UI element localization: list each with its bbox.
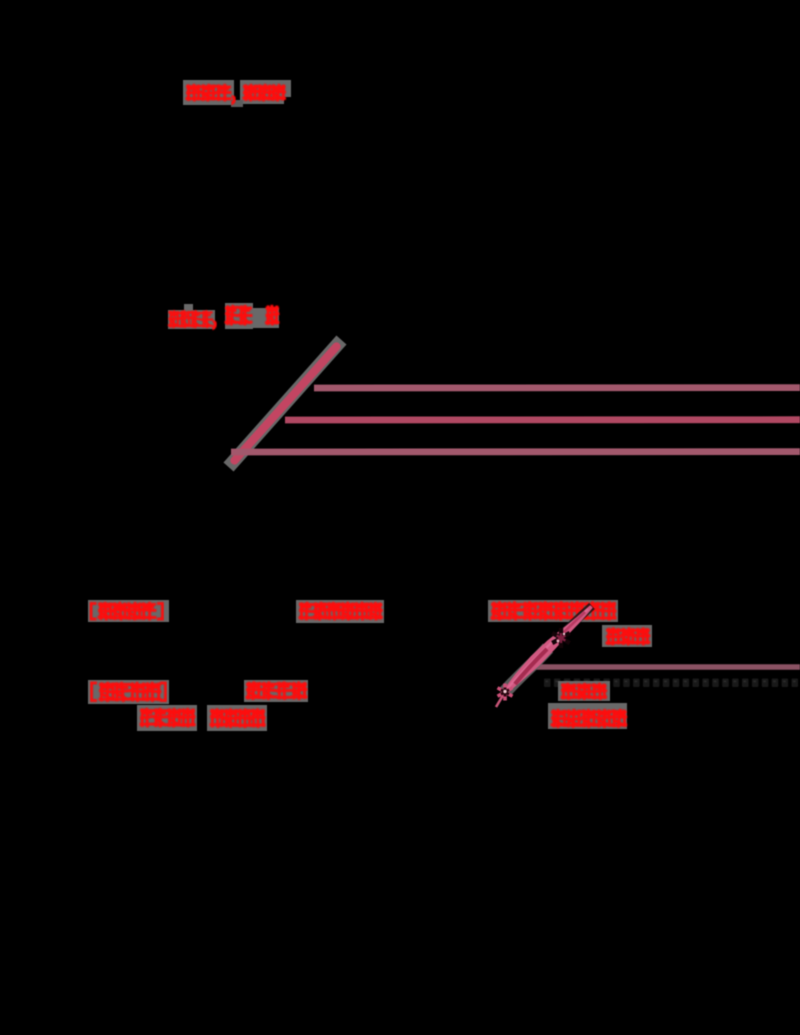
faint watermark glyph row (544, 679, 798, 688)
pen 2 bottom star knot (498, 684, 513, 701)
row2b text group 1 (141, 709, 194, 726)
note text B group 2 (226, 306, 251, 324)
ruled line 3 (231, 448, 800, 455)
pen 2 pink tapered body (504, 606, 592, 693)
pen 2 pink stroke tail (496, 692, 505, 707)
row1 label text (91, 604, 97, 620)
pen 2 dark halo upper (551, 606, 592, 645)
row2 mid highlight box (244, 680, 308, 702)
pen 1 gray halo (233, 345, 337, 462)
row1 right highlight box (488, 600, 618, 622)
pen 1 crimson body (235, 347, 337, 461)
row1 mid text (300, 603, 381, 619)
row2b right text (552, 710, 626, 726)
row2 mid text (247, 683, 306, 699)
header comma descender patch (231, 100, 243, 107)
row1 mid highlight box (296, 600, 384, 623)
pen 2 gray halo lower (505, 648, 548, 692)
header red text group 2 (244, 85, 285, 100)
dash char (253, 316, 265, 319)
note text B group 1 (169, 311, 212, 327)
header highlight box A2 (240, 80, 284, 104)
row1 sub highlight box (602, 625, 652, 647)
row1 label box (88, 600, 169, 622)
note text B highlight patches (168, 310, 215, 329)
header red text group 1 (187, 85, 230, 100)
ruled line 1 (314, 384, 800, 391)
row2b right highlight box (548, 703, 627, 729)
pen 2 dark core streaks (515, 649, 547, 684)
row2b text group 2 (211, 710, 264, 727)
ruled line 2 (285, 416, 800, 423)
row2 right highlight box (558, 681, 610, 701)
pen 2 middle dark knot (552, 628, 569, 648)
pen 2 drawn ruled line (528, 664, 800, 669)
pen 2 bright pink edge (507, 609, 588, 689)
row1 sub text (607, 629, 649, 644)
row2 right text (562, 684, 606, 698)
header highlight stub (284, 80, 291, 97)
row2 label text (92, 683, 98, 701)
header highlight box A1 (183, 80, 234, 105)
row2 label box (88, 680, 169, 704)
row2b left highlight boxes (137, 705, 197, 731)
row1 right text (492, 603, 615, 619)
